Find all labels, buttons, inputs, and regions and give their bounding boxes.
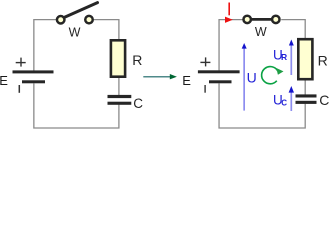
battery E long plate (+) xyxy=(198,70,240,73)
svg-text:R: R xyxy=(318,53,328,69)
voltage arrow UR shaft xyxy=(290,45,292,75)
current arrow I vertical red line xyxy=(228,3,230,16)
svg-text:E: E xyxy=(182,73,191,88)
wire top right segment xyxy=(94,20,119,40)
voltage arrow U head xyxy=(242,43,247,49)
voltage arrow UC head xyxy=(289,86,294,93)
wire top right segment xyxy=(281,20,305,39)
wire capacitor to bottom and return xyxy=(219,83,305,128)
svg-text:C: C xyxy=(133,96,143,111)
wire left branch top xyxy=(219,20,243,71)
wire resistor to capacitor xyxy=(304,80,306,95)
capacitor C top plate xyxy=(108,95,132,98)
svg-text:W: W xyxy=(69,25,81,39)
battery E long plate (+) xyxy=(13,70,54,73)
label + horizontal bar xyxy=(16,62,26,63)
loop arrow (green) head xyxy=(276,68,283,75)
switch W left contact xyxy=(244,16,251,23)
switch W left contact xyxy=(57,16,64,24)
capacitor C bottom plate xyxy=(296,101,317,104)
svg-text:U: U xyxy=(247,69,257,85)
label + horizontal bar xyxy=(200,62,210,63)
svg-text:R: R xyxy=(281,52,287,62)
battery E short plate (-) xyxy=(22,80,45,83)
arrow head xyxy=(170,74,177,79)
resistor R xyxy=(111,40,125,76)
label + vertical bar xyxy=(20,58,21,67)
label + vertical bar xyxy=(205,57,206,66)
svg-text:E: E xyxy=(0,73,8,88)
capacitor C bottom plate xyxy=(108,102,132,105)
loop arrow (green) arc xyxy=(262,67,278,84)
battery E short plate (-) xyxy=(209,80,232,83)
svg-text:W: W xyxy=(255,25,267,39)
switch W lever (open) xyxy=(64,3,98,18)
resistor R xyxy=(298,39,312,79)
label minus bar xyxy=(19,85,21,93)
svg-text:R: R xyxy=(132,52,142,68)
capacitor C top plate xyxy=(296,94,317,97)
arrow shaft xyxy=(143,76,171,78)
switch W right contact xyxy=(272,16,279,23)
wire capacitor to bottom and return xyxy=(34,83,119,128)
wire left branch top xyxy=(34,20,57,71)
switch W right contact xyxy=(85,16,93,24)
voltage arrow U shaft xyxy=(243,48,245,111)
label minus bar xyxy=(204,85,205,93)
voltage arrow UC shaft xyxy=(290,92,292,111)
voltage arrow UR head xyxy=(289,40,294,46)
svg-text:C: C xyxy=(281,98,287,107)
current arrow I red head xyxy=(225,17,233,23)
switch W closed bar xyxy=(248,18,275,21)
svg-text:C: C xyxy=(319,92,329,108)
wire resistor to capacitor xyxy=(118,77,120,95)
